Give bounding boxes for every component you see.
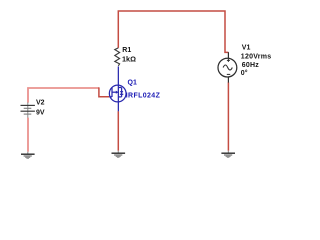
wire top rail (red) <box>118 11 228 52</box>
battery V2 <box>27 102 29 117</box>
AC source V1 <box>218 52 237 82</box>
resistor R1 <box>115 48 120 66</box>
sine wave <box>223 65 232 70</box>
plus <box>227 59 230 61</box>
minus <box>227 73 230 75</box>
svg-text:R1: R1 <box>122 47 131 54</box>
gate bar <box>111 87 113 97</box>
svg-text:120Vrms: 120Vrms <box>241 54 272 61</box>
svg-text:0°: 0° <box>241 69 248 77</box>
svg-text:1kΩ: 1kΩ <box>122 54 136 63</box>
drain/source through line <box>117 66 119 111</box>
gate stub <box>109 96 112 98</box>
wire V1 bottom to ground (red) <box>227 82 229 150</box>
body arrow head <box>116 91 119 94</box>
top connector <box>118 87 121 89</box>
bottom connector <box>118 96 121 98</box>
svg-text:IRFL024Z: IRFL024Z <box>126 93 161 100</box>
svg-text:60Hz: 60Hz <box>242 62 259 69</box>
body circle <box>109 85 126 102</box>
transistor Q1 (NMOS) <box>109 66 126 111</box>
body arrow line <box>112 91 116 93</box>
wire battery bottom to ground (pink) <box>27 118 29 152</box>
svg-text:Q1: Q1 <box>128 80 137 87</box>
ground under V1 <box>221 151 235 158</box>
wire source to ground (red) <box>117 111 119 151</box>
wire gate jog (red) <box>99 87 109 96</box>
right vertical <box>121 88 123 97</box>
wire battery top to gate (pink) <box>28 88 99 103</box>
diode triangle <box>120 91 123 94</box>
svg-text:V1: V1 <box>242 45 251 52</box>
diode cathode bar <box>120 93 123 95</box>
svg-text:V2: V2 <box>36 99 45 106</box>
ground under V2 <box>21 152 35 159</box>
svg-text:9V: 9V <box>36 109 45 116</box>
ground under Q1 source <box>112 151 126 158</box>
